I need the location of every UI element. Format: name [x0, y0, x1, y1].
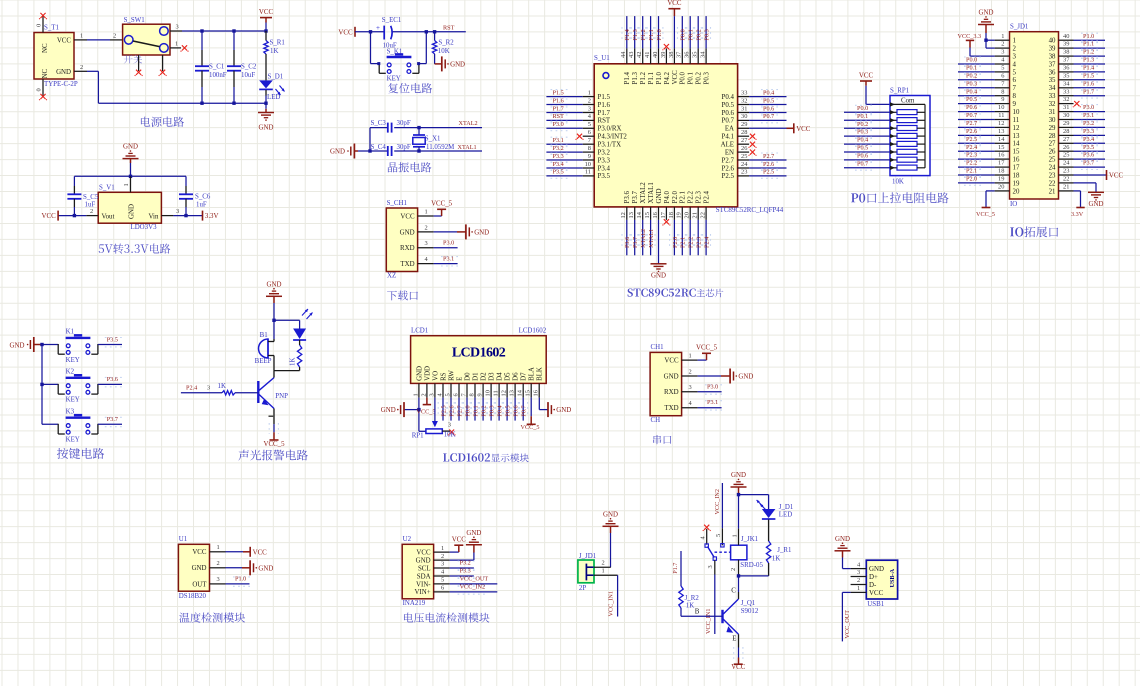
- svg-text:GND: GND: [10, 343, 25, 350]
- svg-text:P0.0: P0.0: [857, 105, 868, 112]
- svg-text:1K: 1K: [270, 48, 278, 55]
- svg-text:P3.6: P3.6: [107, 376, 118, 383]
- svg-text:43: 43: [628, 52, 635, 58]
- svg-text:P1.0: P1.0: [656, 71, 663, 84]
- svg-text:D2: D2: [481, 372, 488, 381]
- svg-text:GND: GND: [56, 69, 71, 76]
- svg-text:14: 14: [636, 211, 643, 218]
- svg-text:16: 16: [1013, 157, 1020, 164]
- svg-text:16: 16: [533, 390, 540, 396]
- svg-text:P2.0: P2.0: [672, 237, 679, 248]
- svg-text:P3.2: P3.2: [553, 145, 564, 152]
- svg-text:8: 8: [468, 393, 475, 396]
- svg-text:GND: GND: [267, 281, 282, 288]
- svg-text:EA: EA: [725, 126, 734, 133]
- svg-text:GND: GND: [400, 229, 415, 236]
- svg-text:35: 35: [692, 52, 699, 58]
- svg-text:28: 28: [741, 129, 747, 136]
- svg-text:40: 40: [1049, 38, 1056, 45]
- svg-text:24: 24: [741, 161, 748, 168]
- svg-text:22: 22: [700, 212, 707, 218]
- svg-text:GND: GND: [738, 374, 753, 381]
- svg-text:11.0592M: 11.0592M: [426, 144, 454, 151]
- svg-text:39: 39: [1063, 41, 1069, 48]
- svg-text:20: 20: [684, 212, 691, 218]
- svg-text:3: 3: [176, 24, 179, 31]
- svg-text:14: 14: [517, 389, 524, 396]
- svg-text:USB1: USB1: [867, 601, 884, 608]
- svg-text:P1.3: P1.3: [1083, 57, 1094, 64]
- svg-text:P3.0: P3.0: [707, 383, 718, 390]
- svg-text:2: 2: [90, 208, 93, 215]
- svg-text:S_C1: S_C1: [209, 64, 225, 71]
- svg-text:+: +: [376, 24, 380, 32]
- svg-text:P0.3: P0.3: [489, 405, 496, 416]
- svg-text:20: 20: [998, 184, 1004, 191]
- svg-text:P0.7: P0.7: [857, 160, 868, 167]
- svg-text:S_T1: S_T1: [44, 25, 59, 32]
- svg-text:P0.7: P0.7: [763, 113, 774, 120]
- svg-text:11: 11: [998, 112, 1004, 119]
- svg-text:27: 27: [1049, 141, 1056, 148]
- svg-text:40: 40: [1063, 33, 1069, 40]
- svg-text:P3.5: P3.5: [107, 336, 118, 343]
- svg-text:3: 3: [441, 561, 444, 568]
- svg-text:10: 10: [585, 161, 591, 168]
- svg-text:J_Q1: J_Q1: [741, 600, 756, 607]
- svg-text:GND: GND: [556, 407, 571, 414]
- svg-text:32: 32: [1063, 96, 1069, 103]
- svg-text:P2.1: P2.1: [966, 168, 977, 175]
- svg-text:P1.0: P1.0: [656, 29, 663, 40]
- svg-text:P0.4: P0.4: [763, 89, 774, 96]
- svg-text:29: 29: [741, 121, 747, 128]
- svg-text:P3.4: P3.4: [1083, 136, 1094, 143]
- svg-text:2: 2: [689, 368, 692, 375]
- svg-text:15: 15: [998, 144, 1004, 151]
- svg-text:14: 14: [998, 136, 1005, 143]
- svg-text:2: 2: [80, 64, 83, 71]
- svg-text:P3.5: P3.5: [553, 169, 564, 176]
- svg-text:1: 1: [80, 32, 83, 39]
- svg-text:P0.2: P0.2: [857, 121, 868, 128]
- svg-text:100nF: 100nF: [209, 72, 227, 79]
- svg-text:26: 26: [1049, 149, 1056, 156]
- svg-text:3: 3: [425, 240, 428, 247]
- svg-text:P0.7: P0.7: [722, 118, 735, 125]
- svg-text:VCC_5: VCC_5: [696, 345, 718, 352]
- svg-text:12: 12: [1013, 125, 1020, 132]
- svg-text:P0.5: P0.5: [966, 96, 977, 103]
- svg-text:KEY: KEY: [387, 76, 401, 83]
- svg-text:S_D1: S_D1: [268, 73, 284, 80]
- svg-text:P0.5: P0.5: [763, 97, 774, 104]
- svg-text:P2.5: P2.5: [763, 169, 774, 176]
- svg-text:CH: CH: [651, 417, 661, 424]
- svg-text:P3.2: P3.2: [598, 149, 611, 156]
- svg-text:3: 3: [689, 384, 692, 391]
- svg-text:16: 16: [998, 152, 1004, 159]
- svg-text:RP1: RP1: [412, 433, 424, 440]
- svg-text:GND: GND: [1089, 201, 1104, 208]
- svg-text:1: 1: [123, 183, 130, 186]
- svg-text:USB-A: USB-A: [889, 568, 896, 587]
- svg-text:11: 11: [585, 169, 591, 176]
- svg-text:19: 19: [1013, 180, 1020, 187]
- svg-text:GND: GND: [381, 407, 396, 414]
- svg-text:P0.6: P0.6: [966, 104, 977, 111]
- svg-text:3.3V: 3.3V: [205, 213, 219, 220]
- svg-text:28: 28: [1049, 133, 1056, 140]
- svg-text:BLA: BLA: [529, 367, 536, 381]
- svg-text:3: 3: [1001, 49, 1004, 56]
- svg-text:S_K1: S_K1: [387, 48, 403, 55]
- svg-text:37: 37: [1063, 57, 1070, 64]
- svg-text:S_CH1: S_CH1: [387, 200, 408, 207]
- svg-text:34: 34: [1063, 80, 1070, 87]
- svg-text:1: 1: [425, 208, 428, 215]
- svg-text:1: 1: [732, 534, 739, 537]
- svg-text:27: 27: [741, 137, 748, 144]
- svg-text:P3.6: P3.6: [624, 237, 631, 248]
- svg-text:D-: D-: [869, 582, 877, 589]
- svg-text:VCC_OUT: VCC_OUT: [460, 576, 489, 583]
- svg-text:35: 35: [1063, 72, 1069, 79]
- svg-text:P1.6: P1.6: [598, 102, 611, 109]
- svg-text:30: 30: [1063, 112, 1069, 119]
- svg-text:VCC: VCC: [259, 9, 274, 16]
- svg-text:19: 19: [676, 212, 683, 218]
- svg-text:1K: 1K: [686, 603, 694, 610]
- svg-text:VCC: VCC: [452, 537, 467, 544]
- svg-text:P0.6: P0.6: [763, 105, 774, 112]
- svg-text:GND: GND: [330, 148, 345, 155]
- svg-text:27: 27: [1063, 136, 1070, 143]
- svg-text:GND: GND: [656, 189, 663, 204]
- svg-text:1: 1: [412, 393, 419, 396]
- svg-text:21: 21: [1049, 188, 1056, 195]
- svg-text:D3: D3: [489, 372, 496, 381]
- svg-text:6: 6: [588, 129, 591, 136]
- svg-text:BEEP: BEEP: [255, 358, 272, 365]
- svg-text:ALE: ALE: [721, 142, 734, 149]
- svg-text:P3.4: P3.4: [598, 165, 611, 172]
- svg-text:10K: 10K: [892, 179, 904, 186]
- svg-text:VCC_5: VCC_5: [521, 424, 540, 431]
- svg-text:36: 36: [1063, 65, 1069, 72]
- svg-text:42: 42: [636, 52, 643, 58]
- svg-text:31: 31: [741, 105, 747, 112]
- svg-text:6: 6: [441, 585, 444, 592]
- svg-text:3: 3: [448, 422, 451, 429]
- svg-text:VCC_5: VCC_5: [263, 441, 285, 448]
- svg-text:LCD1: LCD1: [411, 327, 429, 334]
- svg-text:VCC: VCC: [1109, 173, 1124, 180]
- svg-text:SDA: SDA: [417, 573, 431, 580]
- svg-text:P3.3: P3.3: [553, 153, 564, 160]
- svg-text:TXD: TXD: [400, 261, 414, 268]
- svg-text:RST: RST: [598, 118, 611, 125]
- svg-text:P3.1: P3.1: [707, 399, 718, 406]
- svg-text:GND: GND: [651, 273, 666, 280]
- svg-text:S_SW1: S_SW1: [124, 17, 146, 24]
- svg-text:K3: K3: [66, 408, 75, 415]
- svg-text:P3.1: P3.1: [1083, 112, 1094, 119]
- svg-text:VCC_IN2: VCC_IN2: [460, 584, 485, 591]
- svg-text:VCC: VCC: [253, 549, 268, 556]
- svg-text:VCC_5: VCC_5: [431, 201, 453, 208]
- svg-text:13: 13: [998, 128, 1004, 135]
- svg-text:XTAL2: XTAL2: [459, 120, 478, 127]
- svg-text:GND: GND: [979, 10, 994, 17]
- svg-text:12: 12: [501, 390, 508, 396]
- svg-text:36: 36: [1049, 69, 1056, 76]
- svg-text:P1.1: P1.1: [648, 71, 655, 84]
- svg-text:P0.6: P0.6: [857, 153, 868, 160]
- svg-text:LED: LED: [267, 94, 280, 101]
- svg-text:GND: GND: [123, 144, 138, 151]
- svg-text:17: 17: [660, 211, 667, 218]
- svg-text:D+: D+: [869, 574, 878, 581]
- svg-text:LCD1602: LCD1602: [519, 327, 547, 334]
- svg-text:P0.1: P0.1: [688, 71, 695, 84]
- svg-text:5: 5: [715, 534, 722, 537]
- svg-text:S_C4: S_C4: [371, 144, 387, 151]
- svg-text:NC: NC: [42, 69, 49, 79]
- svg-text:P2.3: P2.3: [966, 152, 977, 159]
- svg-text:P3.7: P3.7: [632, 190, 639, 203]
- svg-text:22: 22: [1049, 180, 1056, 187]
- svg-text:P1.7: P1.7: [672, 563, 679, 574]
- svg-text:18: 18: [668, 212, 675, 218]
- svg-text:2: 2: [441, 553, 444, 560]
- svg-text:28: 28: [1063, 128, 1069, 135]
- svg-text:RS: RS: [440, 372, 447, 381]
- svg-text:P3.5: P3.5: [598, 173, 611, 180]
- svg-text:1: 1: [1001, 33, 1004, 40]
- svg-text:P3.6: P3.6: [624, 190, 631, 203]
- svg-text:GND: GND: [869, 566, 884, 573]
- svg-text:P2.5: P2.5: [722, 173, 735, 180]
- svg-text:P3.0: P3.0: [443, 239, 454, 246]
- svg-text:5: 5: [1001, 65, 1004, 72]
- svg-text:P0.5: P0.5: [722, 102, 735, 109]
- svg-text:26: 26: [741, 145, 747, 152]
- svg-text:SCL: SCL: [418, 565, 431, 572]
- svg-text:3: 3: [857, 569, 860, 576]
- svg-text:K2: K2: [66, 368, 75, 375]
- svg-text:P0.3: P0.3: [966, 80, 977, 87]
- svg-text:P3.7: P3.7: [632, 237, 639, 248]
- svg-text:KEY: KEY: [66, 437, 80, 444]
- svg-text:0: 0: [36, 88, 43, 91]
- svg-text:36: 36: [684, 52, 691, 58]
- svg-text:VCC: VCC: [400, 213, 415, 220]
- svg-text:P0.5: P0.5: [505, 405, 512, 416]
- svg-text:P3.1/TX: P3.1/TX: [598, 142, 622, 149]
- svg-text:4: 4: [1013, 61, 1017, 68]
- svg-text:VCC: VCC: [667, 0, 682, 7]
- svg-text:RW: RW: [448, 370, 455, 381]
- svg-text:VCC: VCC: [859, 72, 874, 79]
- svg-text:6: 6: [1013, 77, 1017, 84]
- svg-text:17: 17: [1013, 165, 1020, 172]
- svg-text:P0.0: P0.0: [680, 71, 687, 84]
- svg-text:PNP: PNP: [275, 393, 288, 400]
- svg-text:P2.5: P2.5: [966, 136, 977, 143]
- svg-text:38: 38: [1063, 49, 1069, 56]
- svg-text:P1.5: P1.5: [598, 94, 611, 101]
- svg-text:S_RP1: S_RP1: [890, 87, 910, 94]
- svg-text:9: 9: [1001, 96, 1004, 103]
- svg-text:12: 12: [998, 120, 1004, 127]
- svg-text:D5: D5: [505, 372, 512, 381]
- svg-text:P2.6: P2.6: [763, 161, 774, 168]
- svg-text:P3.0: P3.0: [1083, 104, 1094, 111]
- svg-text:P1.2: P1.2: [1083, 49, 1094, 56]
- svg-text:RXD: RXD: [400, 245, 415, 252]
- svg-text:31: 31: [1049, 109, 1056, 116]
- svg-text:1: 1: [217, 544, 220, 551]
- svg-text:VCC_5: VCC_5: [976, 211, 995, 218]
- svg-text:P4.2: P4.2: [664, 71, 671, 84]
- svg-text:25: 25: [741, 153, 747, 160]
- svg-text:10K: 10K: [444, 432, 456, 439]
- svg-text:14: 14: [1013, 141, 1020, 148]
- svg-text:34: 34: [700, 51, 707, 58]
- svg-text:5: 5: [1013, 69, 1017, 76]
- svg-text:21: 21: [1063, 184, 1069, 191]
- svg-text:C: C: [731, 587, 736, 594]
- svg-text:D6: D6: [513, 372, 520, 381]
- svg-text:2: 2: [217, 560, 220, 567]
- svg-text:3: 3: [428, 393, 435, 396]
- svg-text:S_C5: S_C5: [83, 194, 99, 201]
- svg-text:P0.2: P0.2: [481, 405, 488, 416]
- svg-text:1K: 1K: [772, 556, 780, 563]
- svg-text:10: 10: [485, 390, 492, 396]
- svg-text:40: 40: [652, 52, 659, 58]
- svg-text:LDO3V3: LDO3V3: [131, 224, 158, 231]
- svg-text:J_D1: J_D1: [779, 504, 794, 511]
- svg-text:P3.7: P3.7: [1083, 160, 1094, 167]
- svg-text:3: 3: [176, 208, 179, 215]
- svg-text:P0.6: P0.6: [722, 110, 735, 117]
- svg-text:GND: GND: [258, 565, 273, 572]
- svg-text:P2.0: P2.0: [672, 190, 679, 203]
- svg-text:RST: RST: [553, 113, 565, 120]
- svg-text:VCC: VCC: [731, 664, 746, 671]
- svg-text:P0.7: P0.7: [521, 405, 528, 416]
- svg-text:P3.1: P3.1: [553, 137, 564, 144]
- svg-text:P2.4: P2.4: [186, 384, 197, 391]
- svg-text:J_JD1: J_JD1: [579, 553, 597, 560]
- svg-text:IO: IO: [1010, 201, 1017, 208]
- svg-text:TXD: TXD: [664, 405, 678, 412]
- svg-text:P1.6: P1.6: [1083, 80, 1094, 87]
- svg-text:23: 23: [741, 169, 747, 176]
- svg-text:S_R2: S_R2: [438, 40, 454, 47]
- svg-text:P3.3: P3.3: [460, 568, 471, 575]
- svg-text:12: 12: [620, 212, 627, 218]
- svg-text:23: 23: [1063, 168, 1069, 175]
- svg-text:10K: 10K: [438, 48, 450, 55]
- svg-text:D7: D7: [521, 372, 528, 381]
- svg-text:37: 37: [1049, 61, 1056, 68]
- svg-text:9: 9: [588, 153, 591, 160]
- svg-text:2: 2: [730, 568, 737, 571]
- svg-text:INA219: INA219: [403, 600, 426, 607]
- svg-text:30pF: 30pF: [397, 144, 411, 151]
- svg-text:P1.6: P1.6: [553, 97, 564, 104]
- svg-text:2: 2: [1013, 46, 1017, 53]
- svg-text:24: 24: [1063, 160, 1070, 167]
- svg-text:VCC_5: VCC_5: [417, 408, 436, 415]
- svg-text:BLK: BLK: [537, 367, 544, 381]
- svg-text:P2.3: P2.3: [696, 237, 703, 248]
- svg-text:2: 2: [420, 393, 427, 396]
- svg-text:Com: Com: [901, 97, 915, 104]
- svg-text:P4.3/INT2: P4.3/INT2: [598, 134, 628, 141]
- svg-text:Vout: Vout: [102, 213, 115, 220]
- svg-text:P0.4: P0.4: [857, 137, 868, 144]
- svg-text:VCC: VCC: [672, 70, 679, 85]
- svg-text:8: 8: [1013, 93, 1017, 100]
- svg-text:3: 3: [1013, 54, 1017, 61]
- svg-text:P3.1: P3.1: [443, 255, 454, 262]
- svg-text:J_R1: J_R1: [777, 547, 792, 554]
- svg-text:P0.4: P0.4: [722, 94, 735, 101]
- svg-text:P4.0: P4.0: [664, 190, 671, 203]
- svg-text:SRD-05: SRD-05: [740, 562, 763, 569]
- svg-text:VO: VO: [432, 371, 439, 381]
- svg-text:S_R1: S_R1: [270, 40, 286, 47]
- svg-text:P2.7: P2.7: [763, 153, 774, 160]
- svg-text:GND: GND: [128, 204, 135, 219]
- svg-text:5: 5: [588, 121, 591, 128]
- svg-text:VCC: VCC: [869, 590, 884, 597]
- svg-text:P0.3: P0.3: [704, 71, 711, 84]
- svg-text:S_EC1: S_EC1: [382, 17, 402, 24]
- svg-text:37: 37: [676, 51, 683, 58]
- svg-text:P0.3: P0.3: [857, 129, 868, 136]
- svg-text:P1.4: P1.4: [624, 71, 631, 84]
- svg-text:D4: D4: [497, 372, 504, 381]
- svg-text:P3.3: P3.3: [1083, 128, 1094, 135]
- svg-text:P2.1: P2.1: [680, 190, 687, 203]
- svg-text:P2.0: P2.0: [966, 176, 977, 183]
- svg-text:P2.7: P2.7: [456, 405, 463, 416]
- svg-text:2: 2: [1001, 41, 1004, 48]
- svg-text:44: 44: [620, 51, 627, 58]
- svg-text:2: 2: [857, 577, 860, 584]
- svg-text:39: 39: [660, 52, 667, 58]
- svg-text:19: 19: [998, 176, 1004, 183]
- svg-text:10uF: 10uF: [241, 72, 255, 79]
- svg-text:P1.7: P1.7: [598, 110, 611, 117]
- svg-text:5: 5: [444, 393, 451, 396]
- svg-text:XTAL1: XTAL1: [648, 229, 655, 248]
- svg-text:U2: U2: [403, 536, 412, 543]
- svg-text:1: 1: [857, 585, 860, 592]
- svg-text:GND: GND: [416, 366, 423, 381]
- svg-text:S_C3: S_C3: [371, 120, 387, 127]
- svg-text:KEY: KEY: [66, 357, 80, 364]
- svg-text:0: 0: [36, 24, 43, 27]
- svg-text:6: 6: [452, 393, 459, 396]
- svg-text:15: 15: [644, 212, 651, 218]
- svg-text:RST: RST: [443, 24, 455, 31]
